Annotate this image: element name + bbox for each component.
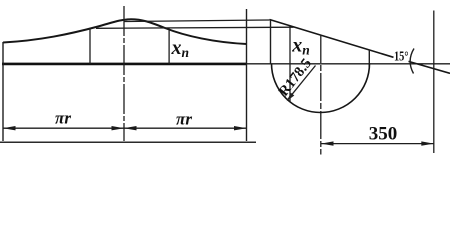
bottom boundary line xyxy=(0,141,256,143)
arrowhead right outward at x=246.5 xyxy=(234,126,247,130)
radius leader line xyxy=(287,66,315,101)
wave profile curve xyxy=(3,19,247,44)
ordinate line at x=169 with label xn xyxy=(168,30,170,64)
15 degree slant line right of label xyxy=(409,61,450,73)
arrowhead left outward at x=3 xyxy=(3,126,16,130)
lower reference line xyxy=(96,27,294,28)
apex vertical wall at x=270.5 xyxy=(270,20,272,65)
svg-text:xn: xn xyxy=(171,37,190,60)
ordinate line at x=90 xyxy=(89,28,91,64)
upper reference line at peak level xyxy=(124,20,270,22)
svg-text:350: 350 xyxy=(369,124,398,145)
circle vertical centerline xyxy=(320,35,322,155)
arrowhead right at x=124 pointing right xyxy=(112,126,125,130)
svg-text:15°: 15° xyxy=(394,50,409,65)
curve end vertical / extension at x=246.5 xyxy=(246,9,248,141)
dimension line pi-r (left pair) xyxy=(3,127,247,129)
ordinate vertical at x=290 with label xn xyxy=(289,26,291,102)
svg-text:πr: πr xyxy=(176,110,192,129)
right wall vertical at x=369.3 xyxy=(368,50,370,68)
centerline of wave peak (chain line) xyxy=(123,6,125,141)
350 dimension line xyxy=(321,143,434,145)
svg-text:πr: πr xyxy=(55,108,71,127)
semicircle R178.5 xyxy=(272,64,370,113)
arrowhead left at x=124 pointing left xyxy=(124,126,137,130)
350 dimension right extension line xyxy=(433,11,435,154)
svg-text:xn: xn xyxy=(291,35,310,58)
svg-text:R178.5: R178.5 xyxy=(276,56,315,100)
left profile edge vertical xyxy=(2,42,4,141)
angle arc for 15 degrees xyxy=(410,49,414,74)
350 arrowhead right xyxy=(421,141,434,145)
15 degree slant line left of label xyxy=(270,20,394,58)
baseline (ground line, thick left part) xyxy=(2,63,247,66)
baseline thin right part xyxy=(247,63,450,65)
radius leader arrowhead xyxy=(287,93,295,101)
350 arrowhead left xyxy=(321,141,334,145)
